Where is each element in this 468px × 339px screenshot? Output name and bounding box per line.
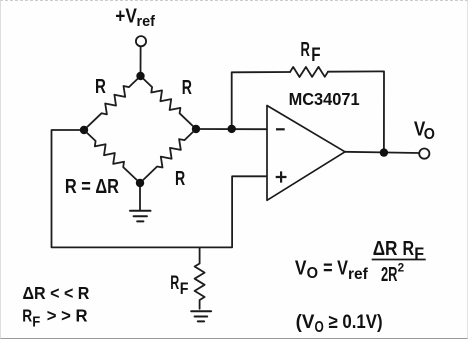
svg-text:≥ 0.1V): ≥ 0.1V): [329, 311, 383, 333]
wire feedback left segment up from - input junction: [232, 72, 290, 129]
svg-text:MC34071: MC34071: [289, 89, 360, 109]
node: inverting input junction: [228, 125, 236, 133]
svg-text:2R: 2R: [381, 264, 398, 286]
op-amp - symbol: [276, 128, 285, 130]
wire from +Vref terminal to bridge top: [140, 47, 142, 76]
svg-text:R: R: [170, 273, 179, 294]
svg-text:ref: ref: [137, 13, 156, 30]
node: bridge right junction: [192, 125, 200, 133]
resistor R (bridge bottom-right arm): [140, 129, 196, 183]
terminal +Vref: [136, 36, 146, 46]
op-amp + symbol: [276, 171, 287, 182]
node: output junction: [380, 148, 388, 156]
wire bridge bottom node to ground: [139, 183, 141, 211]
resistor R (bridge top-left arm): [84, 76, 141, 130]
svg-text:R = ΔR: R = ΔR: [65, 176, 120, 198]
wire feedback right segment down to output node: [328, 71, 384, 152]
svg-text:ref: ref: [348, 266, 368, 283]
resistor RF (feedback): [290, 67, 328, 77]
svg-text:O: O: [315, 319, 324, 336]
node: bridge left junction: [80, 126, 88, 134]
svg-text:R: R: [182, 77, 193, 99]
svg-text:R: R: [403, 238, 415, 260]
svg-text:F: F: [32, 314, 40, 330]
ground (bridge bottom): [130, 211, 151, 222]
wire from bridge right node to op-amp - input: [196, 128, 267, 130]
svg-text:F: F: [311, 45, 320, 66]
svg-text:F: F: [180, 279, 189, 298]
svg-text:+V: +V: [115, 6, 137, 28]
node: bridge top junction: [136, 72, 144, 80]
equation fraction bar: [372, 259, 426, 261]
wire op-amp output to VO terminal: [345, 152, 419, 153]
terminal VO: [419, 149, 429, 159]
node: bridge bottom junction: [136, 179, 144, 187]
svg-text:R: R: [95, 76, 106, 98]
resistor R=dR (bridge bottom-left arm): [84, 130, 140, 183]
svg-text:> > R: > > R: [47, 306, 88, 326]
svg-text:O: O: [424, 126, 435, 143]
svg-text:2: 2: [398, 262, 405, 274]
svg-text:(V: (V: [296, 311, 315, 333]
svg-text:ΔR < < R: ΔR < < R: [23, 283, 90, 303]
resistor RF (bottom, to ground): [195, 247, 205, 308]
svg-text:ΔR: ΔR: [373, 238, 398, 260]
op-amp U1 MC34071: [267, 106, 345, 201]
svg-text:R: R: [301, 39, 311, 61]
svg-text:R: R: [22, 306, 32, 326]
svg-text:R: R: [175, 168, 186, 190]
wire from bridge left node down and along bottom to op-amp + input: [52, 130, 268, 247]
ground (bottom RF): [191, 311, 211, 321]
svg-text:= V: = V: [323, 258, 348, 280]
svg-text:O: O: [307, 265, 318, 282]
svg-text:V: V: [295, 258, 307, 280]
resistor R (bridge top-right arm): [141, 76, 197, 129]
